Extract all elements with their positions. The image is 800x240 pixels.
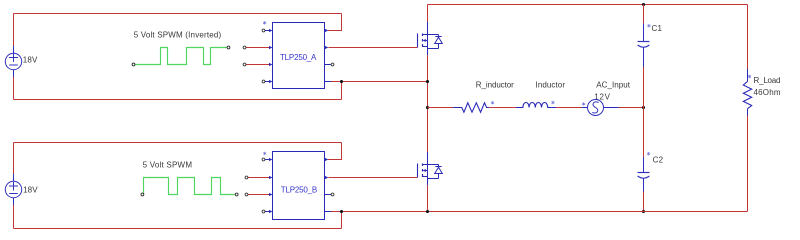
resistor R_inductor [453, 103, 489, 112]
transistor Q1 MOSFET top [418, 22, 443, 55]
wire R_Load bottom lead [747, 109, 749, 212]
wire top rail loop2 [14, 142, 342, 144]
wire Q2 source to bottom rail [427, 185, 429, 211]
asterisk Inductor [551, 101, 554, 104]
wire top rail loop1 [14, 13, 342, 15]
wire U1 return to midpoint [342, 81, 428, 83]
asterisk R_inductor [491, 101, 494, 104]
pin 3 U1 [243, 63, 272, 66]
pin 8 U1 right top [325, 29, 329, 32]
svg-text:Inductor: Inductor [536, 81, 566, 90]
node junction bottom rail C2 [642, 210, 645, 213]
label 5 Volt SPWM (Inverted) [134, 31, 222, 40]
svg-text:C1: C1 [652, 24, 663, 33]
wire Inductor to AC_Input [552, 107, 582, 109]
svg-text:TLP250_A: TLP250_A [280, 53, 317, 62]
inductor Inductor [516, 102, 552, 107]
source AC_Input 12V [582, 100, 619, 116]
svg-text:5 Volt SPWM: 5 Volt SPWM [143, 160, 193, 169]
label 18V (V1) [23, 55, 38, 64]
terminal circle wave2 start [141, 193, 144, 196]
label R_Load [754, 76, 781, 85]
wire loop1 bottom rail [14, 99, 342, 101]
pin 2 U1 [243, 46, 272, 49]
pin 6 U1 open [325, 63, 334, 66]
svg-text:R_Load: R_Load [754, 76, 781, 85]
wire half-bridge midpoint vertical [427, 55, 429, 152]
pin 4 U2 [262, 210, 272, 213]
pin 8 U2 right top [325, 158, 329, 161]
op-amp U2 TLP250_B box [273, 152, 325, 220]
label Inductor [536, 81, 566, 90]
asterisk R_Load [748, 75, 751, 78]
pin 7 U2 gate output [325, 176, 329, 179]
svg-text:C2: C2 [653, 155, 664, 164]
wire R_Load top lead [747, 5, 749, 82]
signal waveform SPWM inverted [135, 48, 227, 65]
source V1 18V [5, 53, 21, 69]
svg-text:18V: 18V [23, 185, 38, 194]
wire main top rail [428, 4, 748, 6]
asterisk AC_Input [582, 102, 585, 105]
svg-text:AC_Input: AC_Input [596, 81, 630, 90]
svg-text:5 Volt SPWM (Inverted): 5 Volt SPWM (Inverted) [134, 31, 222, 40]
node junction loop2 return [340, 210, 343, 213]
wire loop2 left lower [13, 198, 15, 229]
svg-text:R_inductor: R_inductor [476, 81, 514, 90]
label 5 Volt SPWM [143, 160, 193, 169]
wire C2 bottom lead [643, 192, 645, 212]
asterisk C1 [647, 24, 650, 27]
label R_inductor [476, 81, 514, 90]
pin 6 U2 open [325, 193, 334, 196]
label 46Ohm [754, 88, 781, 97]
asterisk C2 [647, 152, 650, 155]
wire branch to R_inductor [428, 107, 453, 109]
wire cap midpoint to C2 [643, 108, 645, 173]
wire loop1 right lower vertical [341, 82, 343, 100]
pin 1 U1 [262, 29, 272, 32]
wire Q1 drain to top rail [427, 5, 429, 23]
capacitor C2 [638, 173, 650, 192]
label AC_Input [596, 81, 630, 90]
wire loop1 right upper vertical [328, 14, 342, 31]
pin 2 U2 [245, 176, 272, 179]
source V2 18V [5, 181, 21, 197]
label 12V [594, 92, 610, 101]
wire loop2 bottom rail [14, 228, 342, 230]
pin 5 U1 return [325, 81, 342, 83]
svg-text:TLP250_B: TLP250_B [281, 186, 317, 195]
asterisk pin1 U2 [263, 152, 266, 155]
label C2 [653, 155, 664, 164]
node junction top rail C1 [642, 3, 645, 6]
node junction cap midpoint [642, 106, 645, 109]
wire U1 gate to Q1 [328, 47, 417, 49]
label C1 [652, 24, 663, 33]
wire AC_Input to capacitor midpoint [619, 107, 644, 109]
terminal circle wave1 start [132, 63, 135, 66]
pin 3 U2 [245, 193, 272, 196]
wire loop1 left upper [13, 14, 15, 54]
label 18V (V2) [23, 185, 38, 194]
wire loop2 right lower vertical [341, 212, 343, 229]
capacitor C1 [638, 42, 650, 68]
pin 4 U1 [262, 80, 272, 83]
svg-text:46Ohm: 46Ohm [754, 88, 781, 97]
node junction midpoint return [426, 80, 429, 83]
wire main bottom rail [342, 211, 748, 213]
wire C1 top lead [643, 5, 645, 42]
node junction midpoint branch [426, 106, 429, 109]
pin 7 U1 gate output [325, 46, 329, 49]
terminal circle wave2 end [235, 193, 238, 196]
node junction Q2 source bottom rail [426, 210, 429, 213]
wire loop2 right upper vertical [328, 143, 342, 160]
asterisk pin1 U1 [263, 21, 266, 24]
pin 5 U2 return [325, 211, 342, 213]
wire R_inductor to Inductor [489, 107, 516, 109]
svg-text:18V: 18V [23, 55, 38, 64]
wire U2 gate to Q2 [328, 177, 417, 179]
wire loop2 left upper [13, 143, 15, 182]
node junction loop1 return [340, 80, 343, 83]
signal waveform SPWM [144, 178, 236, 195]
wire loop1 left lower [13, 70, 15, 100]
wire C1 bottom lead [643, 67, 645, 108]
terminal circle wave1 end [227, 46, 230, 49]
resistor R_Load [743, 82, 751, 109]
pin 1 U2 [262, 158, 272, 161]
op-amp U1 TLP250_A box [273, 23, 325, 89]
transistor Q2 MOSFET bottom [418, 152, 443, 185]
